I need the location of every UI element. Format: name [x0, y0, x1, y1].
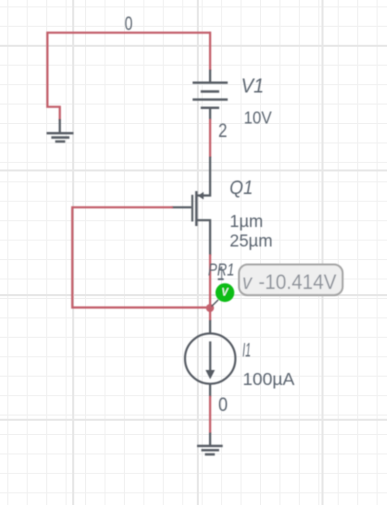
- svg-text:v: v: [242, 270, 253, 294]
- Q1 gate bar: [191, 195, 193, 222]
- current source I1 arrow shaft: [209, 341, 211, 371]
- wire I1 to ground: [209, 396, 211, 434]
- current source I1 arrow head: [206, 370, 215, 379]
- svg-text:25µm: 25µm: [230, 230, 273, 250]
- Q1 drain pin vertical: [196, 157, 210, 196]
- svg-text:PR1: PR1: [208, 260, 235, 280]
- Q1 source pin: [196, 220, 210, 255]
- tooltip box: [239, 265, 343, 296]
- current source I1 circle: [185, 333, 235, 383]
- Q1 drain arrow: [198, 192, 204, 200]
- ground symbol bottom bars: [197, 446, 223, 455]
- svg-text:-10.414V: -10.414V: [259, 270, 338, 294]
- battery V1 plates: [193, 83, 228, 108]
- svg-text:2: 2: [218, 120, 227, 142]
- svg-text:1µm: 1µm: [230, 211, 264, 231]
- current source I1 top pin: [209, 320, 211, 333]
- current source I1 bottom pin: [209, 384, 211, 397]
- ground symbol left pin: [59, 119, 61, 133]
- svg-text:Q1: Q1: [230, 178, 254, 199]
- svg-text:V1: V1: [241, 76, 264, 98]
- wire junction to I1: [209, 308, 211, 321]
- probe PR1 pointer line: [212, 300, 219, 307]
- wire net 0 right vertical to V1: [209, 32, 211, 71]
- svg-text:0: 0: [125, 14, 133, 35]
- node label 1 serif: [218, 278, 223, 280]
- svg-text:100µA: 100µA: [243, 369, 295, 389]
- wire Q1 source to junction: [209, 255, 211, 308]
- wire net 0 left vertical with jog to ground: [47, 32, 59, 121]
- probe PR1 green circle: [216, 283, 235, 302]
- svg-text:10V: 10V: [244, 108, 272, 128]
- Q1 channel bar: [195, 191, 197, 226]
- Q1 gate pin: [172, 206, 192, 208]
- junction node dot: [206, 304, 214, 312]
- battery V1 bottom pin: [209, 108, 211, 120]
- wire net 0 top horizontal: [47, 32, 210, 34]
- wire V1 to Q1 drain: [209, 119, 211, 158]
- svg-text:I1: I1: [242, 341, 251, 362]
- svg-text:0: 0: [218, 394, 228, 416]
- ground symbol bottom pin: [209, 433, 211, 446]
- battery V1 top pin: [209, 70, 211, 83]
- ground symbol left bars: [47, 133, 74, 141]
- wire gate feedback loop: [72, 207, 208, 307]
